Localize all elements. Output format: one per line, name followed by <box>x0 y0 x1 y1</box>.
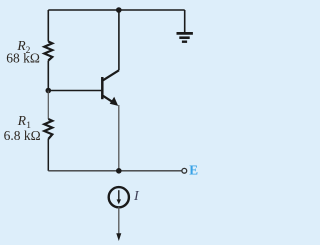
node junction emitter bottom <box>116 168 122 174</box>
ground <box>177 33 193 41</box>
resistor R2 <box>44 42 52 61</box>
wire ground stem <box>184 10 186 33</box>
wire top horizontal <box>48 9 184 11</box>
current source arrow inside <box>117 190 121 204</box>
transistor Q1 emitter lead with arrow <box>103 96 119 106</box>
wire bottom horizontal <box>48 170 182 172</box>
svg-text:68 kΩ: 68 kΩ <box>6 50 40 65</box>
resistor R1 <box>44 119 52 139</box>
wire emitter vertical <box>118 105 120 171</box>
transistor Q1 base bar <box>101 77 104 99</box>
wire base horizontal <box>48 90 101 92</box>
output arrow bottom <box>116 233 121 241</box>
wire below current source <box>118 207 120 234</box>
svg-text:6.8 kΩ: 6.8 kΩ <box>4 128 41 143</box>
wire R1 bottom vertical <box>47 139 49 171</box>
wire R2 bottom to base node <box>47 61 49 91</box>
transistor Q1 collector lead <box>103 70 119 80</box>
node junction base (R2/R1/base) <box>46 88 52 94</box>
svg-text:E: E <box>189 162 198 177</box>
terminal E open circle <box>182 168 187 173</box>
wire left upper <box>47 10 49 42</box>
current source I circle <box>109 187 129 207</box>
wire collector vertical <box>118 10 120 70</box>
node junction top (collector to supply) <box>116 7 122 13</box>
wire R1 top (base node down) <box>47 91 49 120</box>
